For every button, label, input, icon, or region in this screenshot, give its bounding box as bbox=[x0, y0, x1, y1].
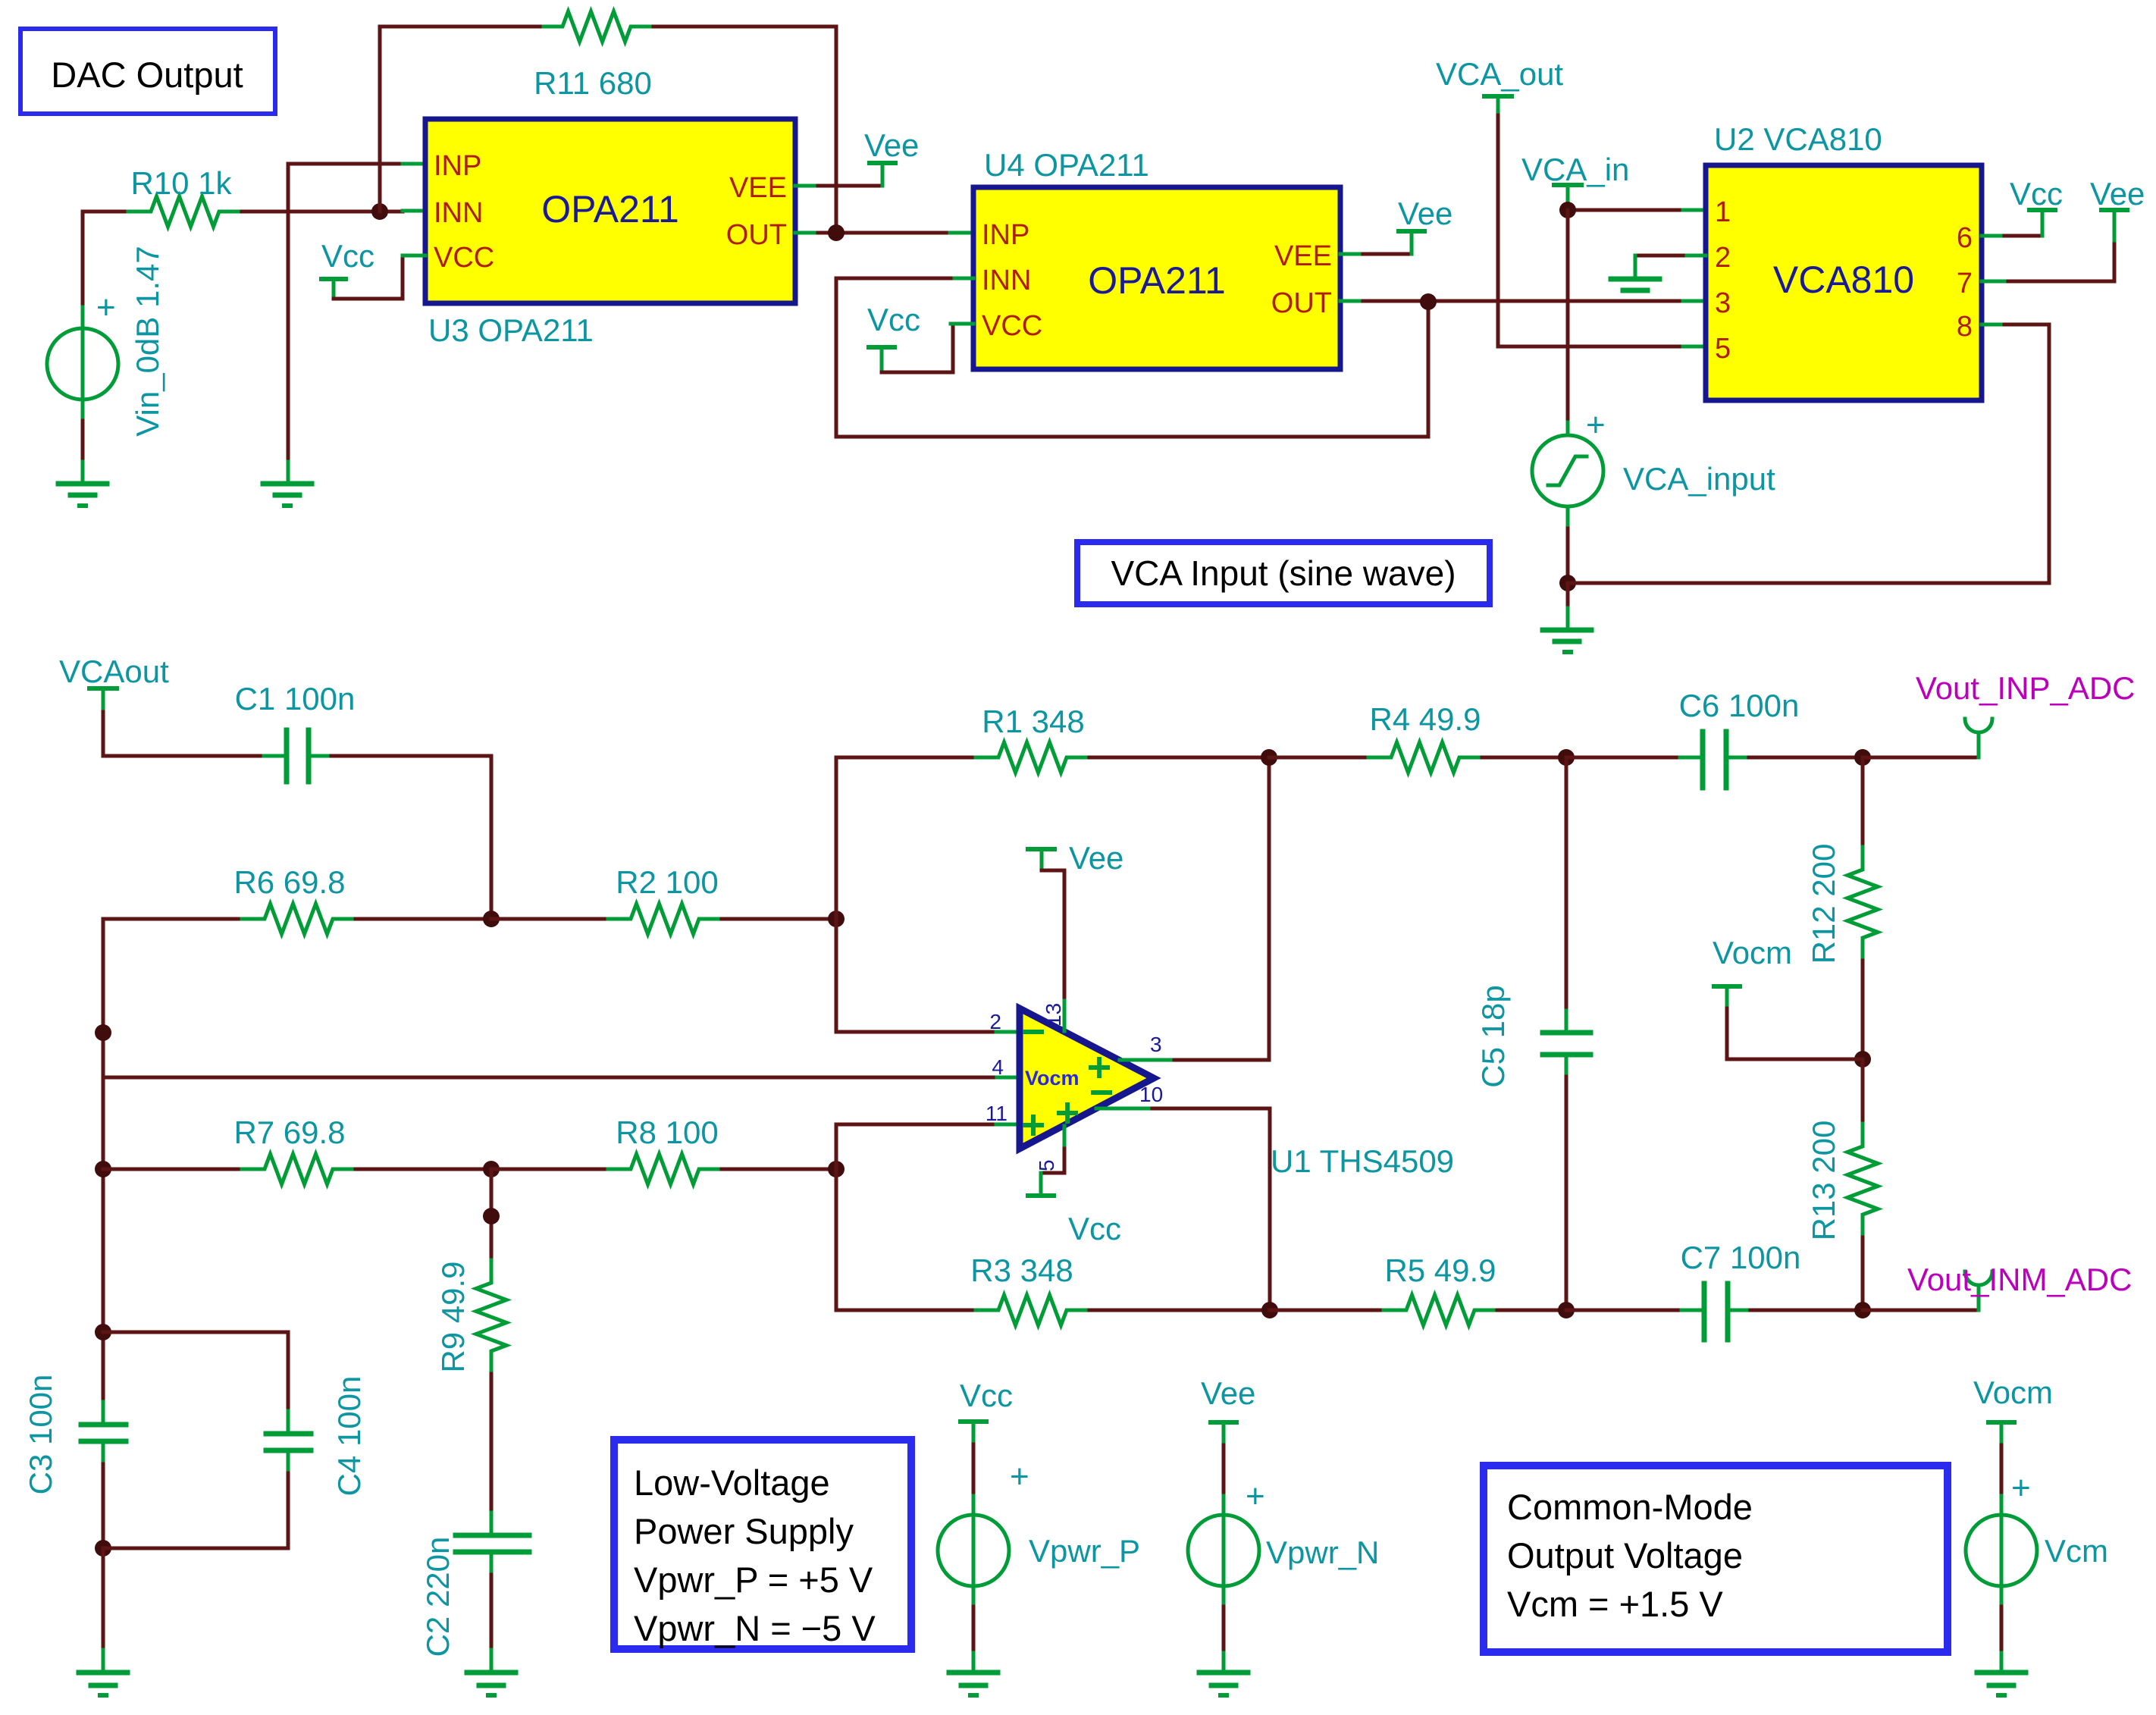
svg-text:Power Supply: Power Supply bbox=[634, 1511, 854, 1551]
resistor R1 348 bbox=[836, 704, 1269, 919]
svg-text:VEE: VEE bbox=[1274, 240, 1332, 272]
node U4 OUT junction bbox=[1420, 293, 1437, 310]
svg-text:Vin_0dB 1.47: Vin_0dB 1.47 bbox=[130, 246, 165, 436]
svg-text:+: + bbox=[1586, 406, 1606, 444]
node left bus upper dot bbox=[95, 1024, 111, 1041]
output terminal Vout_INM_ADC bbox=[1863, 1262, 2132, 1310]
svg-text:R2 100: R2 100 bbox=[616, 864, 718, 900]
svg-text:INN: INN bbox=[434, 197, 483, 229]
wire Vocm pin4 row bbox=[103, 1076, 1020, 1080]
svg-text:13: 13 bbox=[1042, 1003, 1065, 1027]
svg-text:Output Voltage: Output Voltage bbox=[1507, 1535, 1743, 1575]
resistor R8 100 bbox=[491, 1115, 836, 1184]
capacitor C7 100n bbox=[1566, 1240, 1863, 1340]
svg-text:INP: INP bbox=[434, 150, 481, 182]
node Vocm junction bbox=[1854, 1051, 1871, 1068]
svg-text:Vcc: Vcc bbox=[1068, 1211, 1121, 1246]
node R5/C5/C7 junction bbox=[1558, 1302, 1575, 1318]
wire U2 pin2 to ground bbox=[1635, 256, 1706, 276]
voltage source Vpwr_N bbox=[1188, 1375, 1379, 1653]
svg-text:VCA810: VCA810 bbox=[1773, 259, 1914, 301]
svg-text:8: 8 bbox=[1957, 311, 1973, 343]
svg-text:R5 49.9: R5 49.9 bbox=[1384, 1253, 1496, 1288]
node left bus R7 dot bbox=[95, 1161, 111, 1177]
resistor R2 100 bbox=[491, 864, 836, 934]
svg-text:U1 THS4509: U1 THS4509 bbox=[1271, 1143, 1454, 1179]
svg-text:R13 200: R13 200 bbox=[1806, 1121, 1841, 1241]
wire U4 OUT to U2 pin3 bbox=[1340, 299, 1706, 303]
capacitor C3 100n bbox=[23, 1375, 126, 1495]
resistor R13 200 bbox=[1806, 1059, 1878, 1310]
resistor R7 69.8 bbox=[103, 1115, 491, 1184]
svg-text:Vcm = +1.5 V: Vcm = +1.5 V bbox=[1507, 1584, 1723, 1624]
svg-text:Vcc: Vcc bbox=[867, 302, 920, 337]
wire INN lead bbox=[380, 210, 403, 214]
svg-text:C2 220n: C2 220n bbox=[420, 1537, 456, 1657]
power stub Vee (U2 pin7) bbox=[1982, 176, 2145, 281]
wire C1 to R6/R2 node bbox=[331, 756, 491, 919]
voltage source Vin_0dB bbox=[47, 212, 165, 462]
wire pin11 riser bbox=[836, 1124, 996, 1169]
svg-text:R6 69.8: R6 69.8 bbox=[233, 864, 345, 900]
svg-text:Vee: Vee bbox=[1069, 840, 1123, 876]
resistor R3 348 bbox=[836, 1253, 1270, 1325]
svg-text:OUT: OUT bbox=[726, 219, 787, 251]
wire U3 OUT to U4 INP bbox=[795, 231, 973, 235]
svg-text:Vocm: Vocm bbox=[1025, 1067, 1080, 1090]
node R8/pin11 junction bbox=[828, 1161, 845, 1177]
svg-text:3: 3 bbox=[1715, 287, 1731, 319]
svg-text:5: 5 bbox=[1035, 1159, 1058, 1171]
node R6/R2/C1 junction bbox=[483, 911, 500, 927]
svg-text:Vpwr_N: Vpwr_N bbox=[1266, 1535, 1379, 1570]
power stub Vcc (U1 pin5) bbox=[1028, 1126, 1121, 1246]
wire pin11 node down to R3 bbox=[835, 1169, 838, 1310]
svg-text:VCAout: VCAout bbox=[59, 654, 169, 689]
power stub Vee (U1 pin13) bbox=[1028, 840, 1123, 1031]
power stub Vee (U3) bbox=[795, 127, 919, 186]
annotation box DAC Output bbox=[20, 29, 275, 114]
ground (Vpwr_P) bbox=[949, 1653, 998, 1695]
svg-text:2: 2 bbox=[989, 1010, 1001, 1033]
node U3 OUT junction bbox=[828, 224, 845, 241]
capacitor C6 100n bbox=[1566, 688, 1863, 788]
svg-text:VEE: VEE bbox=[729, 172, 787, 204]
annotation box VCA Input (sine wave) bbox=[1077, 542, 1490, 604]
node VCA_in junction bbox=[1559, 202, 1576, 218]
net label VCAout bbox=[59, 654, 169, 712]
svg-text:7: 7 bbox=[1957, 268, 1973, 299]
svg-text:INN: INN bbox=[982, 265, 1031, 296]
node R1/R4/pin3 junction bbox=[1261, 749, 1277, 766]
resistor R5 49.9 bbox=[1270, 1253, 1566, 1325]
resistor R10 1k bbox=[83, 165, 403, 227]
resistor R4 49.9 bbox=[1269, 701, 1566, 773]
svg-text:C5 18p: C5 18p bbox=[1475, 985, 1511, 1087]
node INN junction bbox=[371, 203, 388, 220]
svg-text:R3 348: R3 348 bbox=[970, 1253, 1073, 1288]
node R9 upper dot bbox=[483, 1208, 500, 1224]
svg-text:Vcm: Vcm bbox=[2045, 1533, 2108, 1569]
svg-text:C6 100n: C6 100n bbox=[1679, 688, 1800, 723]
svg-text:10: 10 bbox=[1139, 1083, 1163, 1106]
resistor R9 49.9 bbox=[435, 1169, 506, 1513]
power stub Vcc (U4) bbox=[867, 302, 973, 372]
ground (Vin_0dB) bbox=[58, 462, 107, 506]
svg-text:U4 OPA211: U4 OPA211 bbox=[984, 147, 1149, 183]
svg-text:R8 100: R8 100 bbox=[616, 1115, 718, 1150]
svg-text:VCA Input (sine wave): VCA Input (sine wave) bbox=[1111, 553, 1456, 593]
svg-text:Vcc: Vcc bbox=[321, 238, 374, 274]
node R2/R1/pin2 junction bbox=[828, 911, 845, 927]
svg-text:U3 OPA211: U3 OPA211 bbox=[428, 312, 594, 348]
resistor R6 69.8 bbox=[103, 864, 491, 934]
svg-text:Vpwr_N = −5 V: Vpwr_N = −5 V bbox=[634, 1608, 876, 1648]
node R7/R8/R9 junction bbox=[483, 1161, 500, 1177]
wire VCA_out to U2 pin5 bbox=[1498, 115, 1706, 346]
capacitor C4 100n bbox=[103, 1332, 367, 1548]
wire VCA_in to U2 pin1 bbox=[1568, 208, 1706, 212]
svg-text:DAC Output: DAC Output bbox=[51, 55, 243, 95]
ground (Vpwr_N) bbox=[1199, 1653, 1248, 1695]
svg-text:Vee: Vee bbox=[1201, 1375, 1255, 1411]
svg-text:C3 100n: C3 100n bbox=[23, 1375, 58, 1495]
svg-text:C7 100n: C7 100n bbox=[1681, 1240, 1801, 1275]
svg-text:4: 4 bbox=[992, 1055, 1004, 1079]
svg-text:Vocm: Vocm bbox=[1973, 1375, 2053, 1410]
wire U4 INN feedback loop bbox=[836, 278, 1428, 437]
node C3/C4 bottom junction bbox=[95, 1540, 111, 1557]
op-amp U4 OPA211 bbox=[973, 187, 1340, 369]
wire C3 bottom to ground node bbox=[102, 1464, 105, 1548]
ground (U2 pin2) bbox=[1611, 279, 1659, 290]
wire feedback right vertical to OUT bbox=[835, 27, 838, 233]
power stub Vee (U4) bbox=[1340, 196, 1452, 254]
IC U2 VCA810 bbox=[1706, 165, 1982, 400]
svg-text:Vee: Vee bbox=[2090, 176, 2145, 212]
svg-text:Low-Voltage: Low-Voltage bbox=[634, 1463, 830, 1503]
wire feedback left vertical bbox=[380, 27, 518, 212]
svg-text:2: 2 bbox=[1715, 242, 1731, 274]
net label Vocm (divider) bbox=[1713, 935, 1863, 1059]
capacitor C2 220n bbox=[420, 1513, 529, 1657]
svg-text:6: 6 bbox=[1957, 222, 1973, 254]
wire U2 pin8 loop to source bottom bbox=[1568, 325, 2049, 583]
wire VCAout to C1 bbox=[103, 712, 287, 756]
ground (Vcm) bbox=[1977, 1653, 2026, 1695]
svg-text:R10 1k: R10 1k bbox=[130, 165, 232, 201]
svg-text:R7 69.8: R7 69.8 bbox=[233, 1115, 345, 1150]
resistor R12 200 bbox=[1806, 757, 1878, 1059]
svg-text:OPA211: OPA211 bbox=[1088, 259, 1226, 302]
node C7/R13 junction bbox=[1854, 1302, 1871, 1318]
svg-text:Vcc: Vcc bbox=[2010, 176, 2063, 212]
node R3/R5/pin10 junction bbox=[1261, 1302, 1278, 1318]
svg-text:VCA_out: VCA_out bbox=[1436, 56, 1563, 92]
svg-text:11: 11 bbox=[986, 1102, 1007, 1125]
svg-text:Vee: Vee bbox=[1398, 196, 1452, 231]
svg-text:Common-Mode: Common-Mode bbox=[1507, 1487, 1753, 1527]
svg-text:U2 VCA810: U2 VCA810 bbox=[1714, 121, 1882, 157]
voltage source VCA_input (sine) bbox=[1532, 406, 1775, 583]
net label VCA_in bbox=[1521, 152, 1629, 210]
capacitor C1 100n bbox=[235, 681, 356, 782]
svg-text:5: 5 bbox=[1715, 333, 1731, 365]
wire INP to ground bbox=[288, 164, 425, 462]
svg-text:C4 100n: C4 100n bbox=[331, 1376, 367, 1497]
svg-text:+: + bbox=[96, 289, 116, 326]
svg-text:+: + bbox=[2011, 1469, 2031, 1507]
svg-text:Vcc: Vcc bbox=[960, 1378, 1013, 1413]
ground (C2) bbox=[467, 1575, 515, 1695]
svg-text:R9 49.9: R9 49.9 bbox=[435, 1261, 471, 1372]
op-amp U1 THS4509 (triangle) bbox=[986, 1003, 1163, 1171]
capacitor C5 18p bbox=[1475, 757, 1590, 1310]
svg-text:VCC: VCC bbox=[982, 310, 1042, 342]
svg-text:3: 3 bbox=[1150, 1033, 1162, 1056]
svg-text:OUT: OUT bbox=[1271, 287, 1332, 319]
net label VCA_out bbox=[1436, 56, 1563, 115]
node C6/R12 junction bbox=[1854, 749, 1871, 766]
svg-text:Vout_INP_ADC: Vout_INP_ADC bbox=[1916, 670, 2136, 706]
svg-text:Vocm: Vocm bbox=[1713, 935, 1792, 970]
svg-text:Vpwr_P = +5 V: Vpwr_P = +5 V bbox=[634, 1560, 873, 1600]
svg-text:INP: INP bbox=[982, 219, 1029, 251]
svg-text:R12 200: R12 200 bbox=[1806, 844, 1841, 964]
svg-text:VCA_in: VCA_in bbox=[1521, 152, 1629, 187]
annotation box Low-Voltage Power Supply bbox=[614, 1440, 911, 1649]
power stub Vcc (U3) bbox=[321, 238, 425, 299]
svg-text:+: + bbox=[1010, 1458, 1029, 1495]
ground (U3 INP) bbox=[263, 462, 312, 506]
svg-text:+: + bbox=[1246, 1478, 1265, 1515]
node R4/C6/C5 junction bbox=[1558, 749, 1575, 766]
power stub Vcc (U2 pin6) bbox=[1982, 176, 2063, 236]
svg-text:VCC: VCC bbox=[434, 242, 494, 274]
voltage source Vpwr_P bbox=[938, 1378, 1140, 1653]
wire U1 pin3 to R1/R4 node bbox=[1120, 757, 1269, 1060]
ground (C3) bbox=[79, 1548, 127, 1695]
op-amp U3 OPA211 bbox=[425, 119, 795, 303]
svg-text:R4 49.9: R4 49.9 bbox=[1369, 701, 1481, 737]
ground (VCA_input) bbox=[1543, 583, 1591, 652]
svg-text:1: 1 bbox=[1715, 196, 1731, 228]
svg-text:OPA211: OPA211 bbox=[541, 188, 679, 230]
svg-text:R1 348: R1 348 bbox=[982, 704, 1084, 739]
wire VCA_in down to source bbox=[1566, 210, 1570, 435]
wire pin2 riser bbox=[836, 919, 996, 1032]
svg-text:Vpwr_P: Vpwr_P bbox=[1029, 1533, 1140, 1569]
resistor R11 680 bbox=[518, 11, 836, 101]
node left bus C3/C4 dot bbox=[95, 1324, 111, 1340]
svg-text:Vout_INM_ADC: Vout_INM_ADC bbox=[1907, 1262, 2132, 1297]
wire U1 pin10 to R3/R5 node bbox=[1096, 1108, 1270, 1310]
svg-text:C1 100n: C1 100n bbox=[235, 681, 356, 716]
svg-text:Vee: Vee bbox=[864, 127, 919, 163]
annotation box Common-Mode Output Voltage bbox=[1484, 1466, 1948, 1652]
svg-text:R11 680: R11 680 bbox=[534, 65, 652, 101]
svg-text:VCA_input: VCA_input bbox=[1623, 461, 1775, 497]
wire left bus vertical bbox=[102, 919, 105, 1425]
voltage source Vcm bbox=[1966, 1375, 2108, 1653]
output terminal Vout_INP_ADC bbox=[1863, 670, 2136, 757]
node VCA_input bottom junction bbox=[1559, 575, 1576, 591]
